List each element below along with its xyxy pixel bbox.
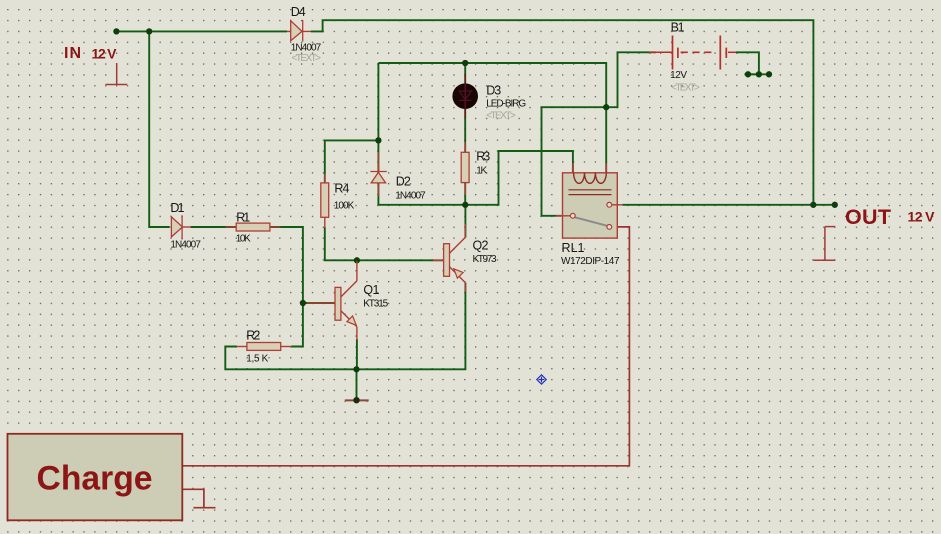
transistor Q1 [307, 261, 357, 340]
wire relay NO contact to OUT node [622, 204, 834, 206]
node battery stub dot 2 [756, 71, 762, 77]
marker origin cross (blue) [537, 375, 546, 384]
wire D3 cathode to R3 top [464, 109, 466, 152]
wire D1 cathode to R1 [191, 226, 237, 228]
svg-text:R3: R3 [476, 150, 490, 164]
wire Charge box lower pin to ground terminal [182, 489, 204, 507]
wire top rail y63 down to D2 [377, 63, 379, 172]
svg-text:D1: D1 [170, 201, 184, 215]
svg-text:KT973: KT973 [473, 254, 497, 265]
svg-text:1,5 K: 1,5 K [246, 354, 268, 365]
svg-text:1K: 1K [476, 166, 487, 177]
svg-text:<TEXT>: <TEXT> [292, 53, 322, 64]
resistor R3 pin stubs [464, 142, 466, 195]
diode D4 pin stubs [287, 30, 311, 32]
battery B1 [649, 36, 736, 70]
resistor R3 [461, 152, 469, 182]
svg-text:Q2: Q2 [473, 239, 489, 253]
transistor Q2 [433, 224, 465, 292]
diode D1 [171, 215, 182, 239]
svg-text:IN: IN [64, 45, 81, 62]
node Q1 base junction [300, 300, 306, 306]
node IN rail junction [146, 28, 152, 34]
node Q1 emitter junction [353, 366, 359, 372]
svg-text:RL1: RL1 [562, 241, 585, 255]
svg-text:12 V: 12 V [908, 209, 936, 225]
node relay coil junction [603, 104, 609, 110]
resistor R2 pin stubs [237, 346, 291, 348]
resistor R2 [247, 343, 281, 351]
wire Q1 base [303, 302, 335, 304]
wire R3 junction down to Q2 collector [464, 205, 466, 238]
wire triple-dot stub segment [745, 73, 773, 75]
wire D3 anode stub from rail [464, 63, 466, 83]
svg-text:12 V: 12 V [92, 46, 118, 62]
wire relay coil right pin up to junction [605, 107, 607, 173]
svg-text:<TEXT>: <TEXT> [486, 111, 516, 122]
terminal OUT [813, 227, 835, 261]
svg-text:10K: 10K [236, 234, 251, 245]
svg-text:W172DIP-147: W172DIP-147 [561, 256, 620, 267]
wire Q1 emitter to rail [356, 339, 358, 369]
node Q1 collector junction [354, 257, 360, 263]
svg-text:1N4007: 1N4007 [395, 191, 426, 202]
svg-text:KT315: KT315 [363, 299, 388, 310]
LED D3 [452, 74, 478, 118]
node IN wire start [113, 28, 119, 34]
resistor R1 [236, 223, 270, 231]
diode D2 pin stubs [377, 152, 379, 196]
wire R2 left down to emitter rail [225, 283, 465, 370]
wire R4 bottom rail to Q2 base [325, 227, 444, 260]
svg-text:1N4007: 1N4007 [170, 240, 201, 251]
svg-text:D4: D4 [291, 5, 306, 19]
ground symbol under Q1 emitter rail [345, 397, 369, 403]
resistor R4 [321, 183, 329, 217]
svg-text:<TEXT>: <TEXT> [671, 83, 700, 94]
svg-text:Q1: Q1 [363, 283, 379, 297]
svg-text:100K: 100K [334, 201, 355, 212]
diode D1 pin stubs [182, 226, 191, 228]
svg-text:Charge: Charge [37, 460, 153, 498]
wire ground stem below emitter rail [356, 369, 358, 400]
svg-text:B1: B1 [671, 21, 685, 35]
svg-text:12V: 12V [670, 70, 687, 81]
Charge box [8, 434, 183, 521]
svg-text:D2: D2 [396, 175, 411, 189]
wire relay COM to junction up left [542, 52, 657, 216]
wire battery right to triple-dot stub [736, 52, 759, 74]
svg-text:R4: R4 [334, 182, 349, 196]
wire relay NC contact down to Charge box (red) [182, 227, 629, 466]
svg-text:OUT: OUT [845, 205, 891, 229]
node D3 top on rail y63 [462, 60, 468, 66]
diode D4 [291, 20, 303, 42]
wire D2 anode to R3 bottom junction [378, 151, 573, 205]
wire R3 bottom to junction [464, 183, 466, 205]
svg-text:1N4007: 1N4007 [291, 43, 322, 54]
svg-text:LED-BIRG: LED-BIRG [486, 99, 526, 110]
wire D4 cathode to top rail and right-side rail down to OUT node [311, 20, 813, 205]
svg-text:R2: R2 [246, 329, 260, 343]
node battery stub dot 3 [766, 71, 772, 77]
svg-text:R1: R1 [236, 211, 250, 225]
diode D2 [370, 172, 386, 183]
node R3 bottom junction [462, 202, 468, 208]
terminal IN [105, 63, 127, 85]
node OUT wire end [832, 202, 838, 208]
wire IN node to D4 anode [116, 30, 287, 32]
ground terminal at Charge box [193, 507, 215, 509]
node battery stub dot 1 [745, 71, 751, 77]
relay RL1 [556, 163, 622, 238]
wire rail y63 from D2 corner to relay junction [378, 63, 606, 107]
wire IN rail down to D1 anode [149, 31, 170, 227]
svg-text:D3: D3 [486, 84, 501, 98]
wire R1 right to Q1 base junction down to R2 right [270, 227, 303, 347]
node OUT junction [810, 202, 816, 208]
resistor R1 pin stubs [225, 226, 280, 228]
wire R4 top to D2 junction rail [325, 140, 379, 183]
node D2 junction y140 [375, 137, 381, 143]
resistor R4 pin stubs [324, 174, 326, 228]
